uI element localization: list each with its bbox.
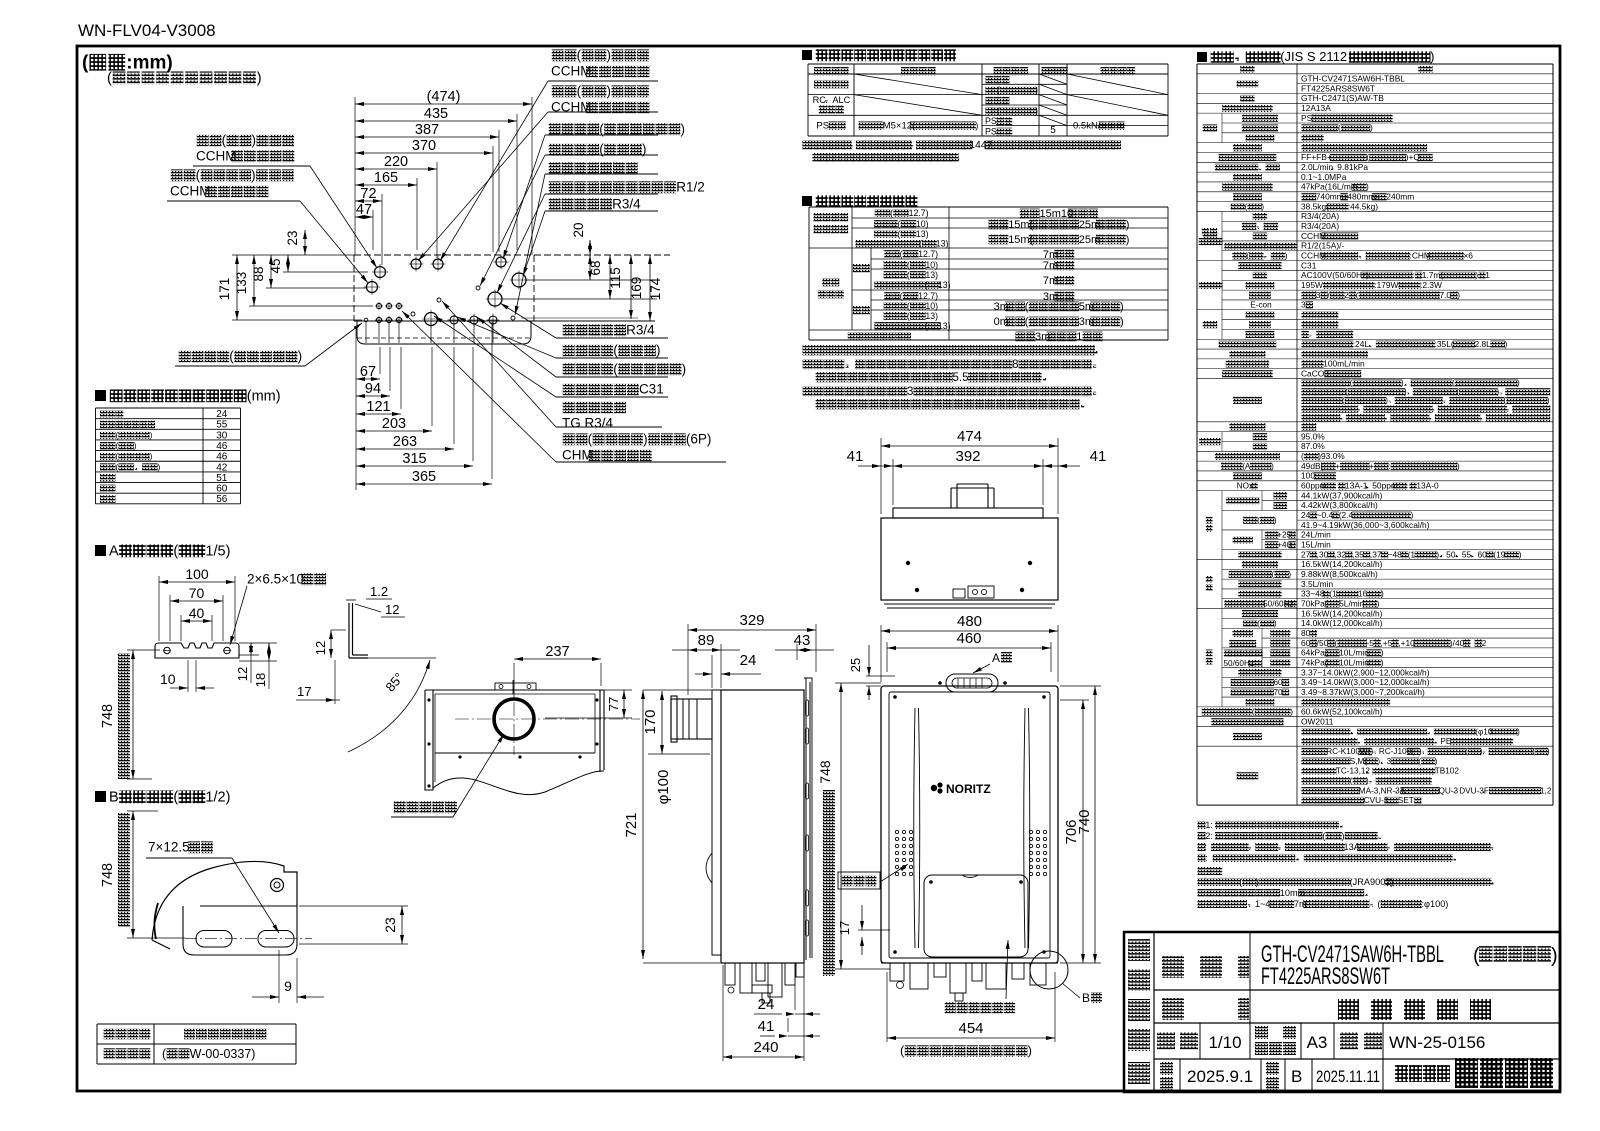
svg-text:): ) [1035,106,1038,116]
svg-text:(JIS S 2112: (JIS S 2112 [1280,49,1347,64]
svg-text:1,2: 1,2 [1540,786,1552,795]
svg-text:): ) [1126,234,1130,246]
svg-text::44.5kg): :44.5kg) [1348,201,1378,211]
unit top view screw dots [906,561,910,565]
notes below spec table [1197,820,1493,909]
scale row [1157,1023,1485,1059]
title A-part detail (1/5) [95,543,230,559]
svg-text:8: 8 [1012,359,1018,371]
svg-text:-5: -5 [1366,638,1374,648]
svg-text:R1/2(15A)/-: R1/2(15A)/- [1301,241,1344,251]
svg-text:174: 174 [648,277,663,300]
svg-text:16.5kW(14,200kcal/h): 16.5kW(14,200kcal/h) [1301,559,1383,569]
svg-text:φ100: φ100 [655,770,672,805]
svg-text:(1: (1 [1408,549,1416,559]
svg-text:13A-1: 13A-1 [1345,481,1368,491]
A-part dim 10 [160,660,214,692]
title block rows [1154,990,1560,1059]
svg-text::: : [1388,461,1390,471]
svg-text:(: ( [1252,708,1255,717]
connector circle heating hot supply [367,282,378,293]
svg-text:C31: C31 [1301,260,1317,270]
svg-text:72: 72 [360,186,376,202]
svg-text:13): 13) [938,321,951,331]
svg-text::: : [1205,853,1208,863]
svg-text:18: 18 [253,673,268,687]
svg-text:12: 12 [235,667,250,681]
B-part base plate [183,906,312,955]
svg-text:): ) [607,48,612,63]
svg-text:27: 27 [1301,549,1311,559]
svg-text:24: 24 [1301,510,1311,520]
svg-text:R3/4: R3/4 [612,197,641,212]
svg-text:10L/min: 10L/min [1339,648,1369,658]
top dimension stack [355,103,532,105]
svg-text:5: 5 [1050,125,1056,136]
svg-text:3: 3 [907,386,913,398]
svg-text:): ) [1411,510,1414,520]
svg-text:FT4225ARS8SW6T: FT4225ARS8SW6T [1301,83,1375,93]
svg-text:(: ( [1338,123,1341,133]
svg-text:(474): (474) [427,89,461,105]
side view exhaust pipe [671,696,712,742]
svg-text:13): 13) [916,229,929,239]
A-part L bracket profile [346,600,368,658]
svg-text:133: 133 [234,272,249,295]
connector circle water supply [488,292,502,306]
svg-text:10): 10) [925,260,938,270]
svg-text:FT4225ARS8SW6T: FT4225ARS8SW6T [1261,963,1390,990]
svg-text:(1: (1 [1329,589,1337,599]
svg-text:(: ( [1350,776,1353,785]
svg-text:): ) [1404,387,1407,396]
svg-text:NORITZ: NORITZ [946,782,991,796]
svg-text:): ) [1457,461,1460,471]
svg-text:(: ( [613,362,618,377]
A-part strip dims 100 70 40 [159,581,235,583]
wiring door [924,875,1028,957]
svg-text:13A-0: 13A-0 [1416,481,1439,491]
unit top view body [881,484,1058,608]
svg-text:2025.11.11: 2025.11.11 [1316,1067,1380,1086]
svg-text:47: 47 [356,202,372,218]
svg-text:): ) [1370,747,1373,756]
title B-part detail (1/2) [95,789,230,805]
svg-text:68: 68 [588,260,603,275]
svg-text:~48: ~48 [1388,549,1403,559]
svg-text:B: B [109,789,119,805]
svg-text:5.5: 5.5 [953,372,969,384]
svg-text:(A: (A [1242,462,1251,471]
svg-text:E-con: E-con [1250,301,1272,310]
svg-text:): ) [1028,1043,1032,1058]
svg-text:40: 40 [189,605,205,621]
svg-text:B: B [1082,991,1090,1005]
svg-text:R3/4(20A): R3/4(20A) [1301,211,1339,221]
front view dims 706 and 740 [1060,686,1101,963]
svg-text:): ) [1551,945,1558,967]
svg-text:,35: ,35 [1352,549,1364,559]
unit top view dim 474 [881,445,1058,447]
svg-text:0.1~1.0MPa: 0.1~1.0MPa [1301,172,1347,182]
svg-text:WN-FLV04-V3008: WN-FLV04-V3008 [78,21,216,40]
date row [1160,1059,1383,1092]
svg-text:(: ( [1356,290,1359,300]
fixing spec table [808,64,1168,136]
svg-text:(: ( [173,789,178,805]
svg-text:474: 474 [957,428,982,445]
side view bottom dims 24 41 240 [723,965,820,1061]
svg-text:88: 88 [251,266,266,281]
svg-text:): ) [1271,462,1274,471]
svg-text:(: ( [900,249,903,259]
svg-text:CCHM: CCHM [551,64,592,79]
svg-text:33~48: 33~48 [1301,589,1325,599]
svg-text:(: ( [1239,877,1242,887]
svg-text:(6P): (6P) [686,432,712,447]
front view bottom connectors [881,963,1058,1001]
svg-text:PS: PS [816,121,829,132]
side view dims 329 89 43 [688,629,816,631]
svg-text:(: ( [907,301,910,311]
svg-text:(: ( [115,441,118,451]
svg-text:(: ( [222,133,227,148]
svg-text:): ) [1261,202,1264,211]
front view dim 25 [848,645,895,700]
title reheating pipe conditions [802,195,917,207]
svg-text:64kPa(: 64kPa( [1301,648,1328,658]
svg-text:): ) [975,121,978,132]
svg-text:(: ( [82,52,89,73]
svg-text:95.0%: 95.0% [1301,431,1325,441]
svg-text:): ) [1370,123,1373,133]
note below fixing table [802,139,1121,162]
svg-text:10L/min: 10L/min [1339,657,1369,667]
svg-text:47kPa(16L/min: 47kPa(16L/min [1301,182,1358,192]
svg-text:80: 80 [1301,628,1311,638]
svg-text:A: A [992,651,1000,665]
svg-text:(: ( [1452,379,1455,388]
svg-text:(: ( [890,208,893,218]
svg-text:(: ( [613,343,618,358]
svg-text:): ) [1274,619,1277,628]
svg-text:115: 115 [608,267,623,289]
right label column lower [500,303,668,338]
B-part dim 23 [401,906,403,944]
unit top view center connector detail [953,586,994,598]
svg-text:(: ( [1025,316,1029,328]
front view corner screw dots [893,695,897,699]
svg-text:): ) [1035,85,1038,95]
svg-text::mm): :mm) [126,52,172,73]
NORITZ logo on front [931,782,991,796]
side view body [712,678,812,963]
svg-text:): ) [1120,316,1124,328]
svg-text:10): 10) [925,301,938,311]
svg-text:454: 454 [958,1020,983,1037]
svg-text:(: ( [107,70,112,86]
svg-text:25: 25 [848,658,863,672]
svg-text:12.7): 12.7) [918,249,938,259]
svg-text:1.2: 1.2 [370,584,388,599]
svg-text:): ) [1517,727,1520,736]
svg-text:2×6.5×10: 2×6.5×10 [247,572,304,587]
right dim extension lines [526,279,657,281]
svg-text:50: 50 [1446,549,1456,559]
svg-text:1~4: 1~4 [1255,899,1271,909]
big circle gas connector [425,313,438,326]
front door seams [914,708,1030,948]
A-part slot on front view top [946,674,998,692]
svg-text:+: + [1335,461,1340,471]
svg-text::: : [1204,842,1207,852]
spec table grid and rows [1197,64,1553,805]
right label column upper [440,48,658,261]
svg-text:GTH-C2471(S)AW-TB: GTH-C2471(S)AW-TB [1301,93,1384,103]
svg-text:721: 721 [623,812,640,837]
svg-text:748: 748 [100,863,116,887]
svg-text:): ) [257,70,262,86]
dim 77 exhaust [623,690,625,718]
svg-text:748: 748 [817,760,833,784]
side view dim 721 [642,690,644,959]
svg-text:41: 41 [847,448,864,465]
svg-text:(: ( [907,311,910,321]
svg-text:3: 3 [1387,757,1392,766]
svg-text:20: 20 [571,222,586,237]
svg-text:(: ( [173,543,178,559]
svg-text:CCHM: CCHM [170,184,211,199]
svg-text:740: 740 [1076,809,1093,834]
svg-text:(: ( [919,238,922,248]
svg-text:13): 13) [936,238,949,248]
svg-text:,37: ,37 [1370,549,1382,559]
svg-text:(: ( [1245,202,1248,211]
svg-text::2.3W: :2.3W [1420,280,1442,290]
svg-text:60: 60 [1301,638,1311,648]
svg-text:(: ( [900,291,903,301]
svg-text:1/2): 1/2) [205,789,230,805]
svg-text:100mL/min: 100mL/min [1323,359,1365,369]
bottom dimension stack [356,378,380,380]
exhaust connection ring [494,699,534,739]
svg-text:AC100V(50/60Hz): AC100V(50/60Hz) [1301,270,1369,280]
svg-text:460: 460 [956,630,981,647]
svg-text:(: ( [1473,945,1480,967]
svg-text:CCHM: CCHM [196,149,237,164]
svg-text:195W: 195W [1301,280,1323,290]
svg-text:165: 165 [374,170,398,186]
svg-text:(mm): (mm) [247,388,281,404]
exhaust side view (A-part region) [425,690,604,795]
svg-text:480: 480 [957,613,982,630]
svg-text:): ) [1377,598,1380,608]
svg-text:): ) [1274,516,1277,525]
svg-text:): ) [682,362,687,377]
svg-text:DVU-3F: DVU-3F [1459,786,1489,795]
spec table group labels and sub grid lines [1199,113,1263,707]
svg-text:): ) [1341,831,1344,841]
svg-text:94: 94 [365,381,381,397]
B-part circle marker [1030,951,1102,1005]
L bracket dim 12 vertical [313,630,346,658]
svg-text:(: ( [1301,451,1304,461]
svg-text:PS: PS [1301,113,1313,123]
svg-text:23: 23 [285,230,300,245]
svg-text:24: 24 [740,652,757,669]
svg-text:(: ( [599,122,604,137]
svg-text:): ) [157,462,160,472]
svg-text:): ) [1126,219,1130,231]
svg-text:(: ( [115,430,118,440]
front view dim 454 [887,1037,1055,1039]
svg-text:(: ( [1334,638,1337,648]
svg-text:(: ( [577,48,582,63]
B-part cam shape [152,861,297,949]
svg-text:): ) [1457,290,1460,300]
svg-text:(2.4: (2.4 [1339,510,1354,520]
front view left 748 dim [817,683,890,976]
note (kiki-jouhou yori no toushizu) [107,70,262,86]
svg-text:5L/min: 5L/min [1339,598,1364,608]
svg-text:16: 16 [1358,589,1368,599]
svg-text:): ) [1285,251,1288,260]
svg-text:GTH-CV2471SAW6H-TBBL: GTH-CV2471SAW6H-TBBL [1301,74,1405,84]
svg-text:): ) [1435,757,1438,766]
svg-text:): ) [298,349,303,364]
svg-text:+: + [1369,461,1374,471]
svg-text:(: ( [115,462,118,472]
svg-text:365: 365 [412,469,436,485]
svg-text:121: 121 [366,399,390,415]
svg-text:17: 17 [837,921,852,935]
connector circles (top row on dashed line) [411,259,421,269]
svg-text:171: 171 [217,278,232,301]
svg-text:×6: ×6 [1463,251,1473,261]
left dimension stack (vertical) [304,230,306,255]
svg-text:237: 237 [545,644,569,660]
svg-text:): ) [642,142,647,157]
svg-text:41: 41 [758,1018,775,1035]
B-part dim 9 [252,950,324,1003]
svg-text:): ) [680,122,685,137]
title joint heights from base plate [95,388,281,404]
svg-text:): ) [1381,648,1384,658]
drawing name row [1162,998,1491,1020]
svg-text:A: A [109,543,119,559]
front view body [881,686,1058,963]
svg-text:(: ( [1025,301,1029,313]
svg-text:(: ( [229,349,234,364]
svg-text:49dB(: 49dB( [1301,461,1324,471]
svg-text:): ) [643,432,648,447]
svg-text:1: 1 [1485,270,1490,280]
svg-text:12A13A: 12A13A [1301,103,1331,113]
svg-text:13): 13) [938,280,951,290]
svg-text:17: 17 [297,684,311,699]
front view pitch label [900,1043,1032,1058]
svg-text:RC: RC [813,95,827,105]
small connectors bottom row [450,316,458,324]
L bracket dim 1.2 and 12 [355,584,405,617]
svg-text:44.1kW(37,900kcal/h): 44.1kW(37,900kcal/h) [1301,490,1383,500]
svg-text:3.5L/min: 3.5L/min [1301,579,1333,589]
svg-text:): ) [1480,747,1483,756]
svg-text:748: 748 [100,704,116,728]
svg-text:55: 55 [1462,549,1472,559]
svg-text:)93.0%: )93.0% [1318,451,1345,461]
svg-text:C31: C31 [639,382,664,397]
svg-text:2.8L: 2.8L [1474,339,1491,349]
svg-text:9: 9 [284,978,292,994]
svg-text:370: 370 [412,138,436,154]
svg-text:WN-25-0156: WN-25-0156 [1389,1033,1485,1052]
svg-text:): ) [1496,387,1499,396]
svg-text:): ) [1401,379,1404,388]
svg-text:(: ( [1350,379,1353,388]
side view small oval left edge [706,853,712,883]
right dimension stack (vertical) [589,240,591,255]
svg-text:): ) [1547,396,1550,405]
svg-text:24L/min: 24L/min [1301,530,1331,540]
A-part dims 12 18 right side [235,643,277,689]
NORITZ company logo [1395,1058,1553,1088]
svg-text:,+10: ,+10 [1398,638,1415,648]
svg-text:315: 315 [402,451,426,467]
svg-text:): ) [1366,776,1369,785]
svg-text:): ) [1381,657,1384,667]
svg-text:263: 263 [393,434,417,450]
A-part label [973,651,1012,673]
svg-text:): ) [1377,757,1380,766]
side view dim 24 top [695,652,761,688]
svg-text:14.0kW(12,000kcal/h): 14.0kW(12,000kcal/h) [1301,618,1383,628]
notes below reheating table [803,345,1098,409]
svg-text:89: 89 [698,632,715,649]
svg-text:2:: 2: [1205,831,1213,841]
screw dots on exhaust view [427,698,430,701]
vertical label nounyuu shiyouzu [1128,939,1150,1084]
svg-text:13): 13) [925,311,938,321]
svg-text:38.5kg(: 38.5kg( [1301,201,1329,211]
svg-text:74kPa(: 74kPa( [1301,657,1328,667]
svg-text:CHM: CHM [562,448,593,463]
svg-text:(: ( [1342,396,1345,405]
svg-text:1/10: 1/10 [1208,1033,1241,1052]
wiring door label [945,940,1015,1013]
svg-text:67: 67 [360,364,376,380]
svg-text:PS: PS [985,116,997,126]
svg-text:41.9~4.19kW(36,000~3,600kcal/h: 41.9~4.19kW(36,000~3,600kcal/h) [1301,520,1430,530]
svg-text:10): 10) [916,219,929,229]
svg-text:(: ( [1246,251,1249,260]
svg-text:2025.9.1: 2025.9.1 [1187,1067,1253,1086]
svg-text:435: 435 [424,106,448,122]
svg-text:240: 240 [753,1039,778,1056]
svg-text:): ) [1547,747,1550,756]
svg-text:60: 60 [1274,678,1284,687]
svg-text:240mm: 240mm [1386,192,1414,202]
left 748 dim for B-part [100,811,185,938]
svg-text:B: B [1291,1067,1302,1086]
air inlet label [838,864,908,889]
svg-text:(: ( [1418,757,1421,766]
svg-text:): ) [1517,379,1520,388]
svg-text:3.37~14.0kW(2,900~12,000kcal/h: 3.37~14.0kW(2,900~12,000kcal/h) [1301,667,1430,677]
svg-text:): ) [1430,49,1434,64]
svg-text:): ) [656,343,661,358]
svg-text:): ) [607,84,612,99]
